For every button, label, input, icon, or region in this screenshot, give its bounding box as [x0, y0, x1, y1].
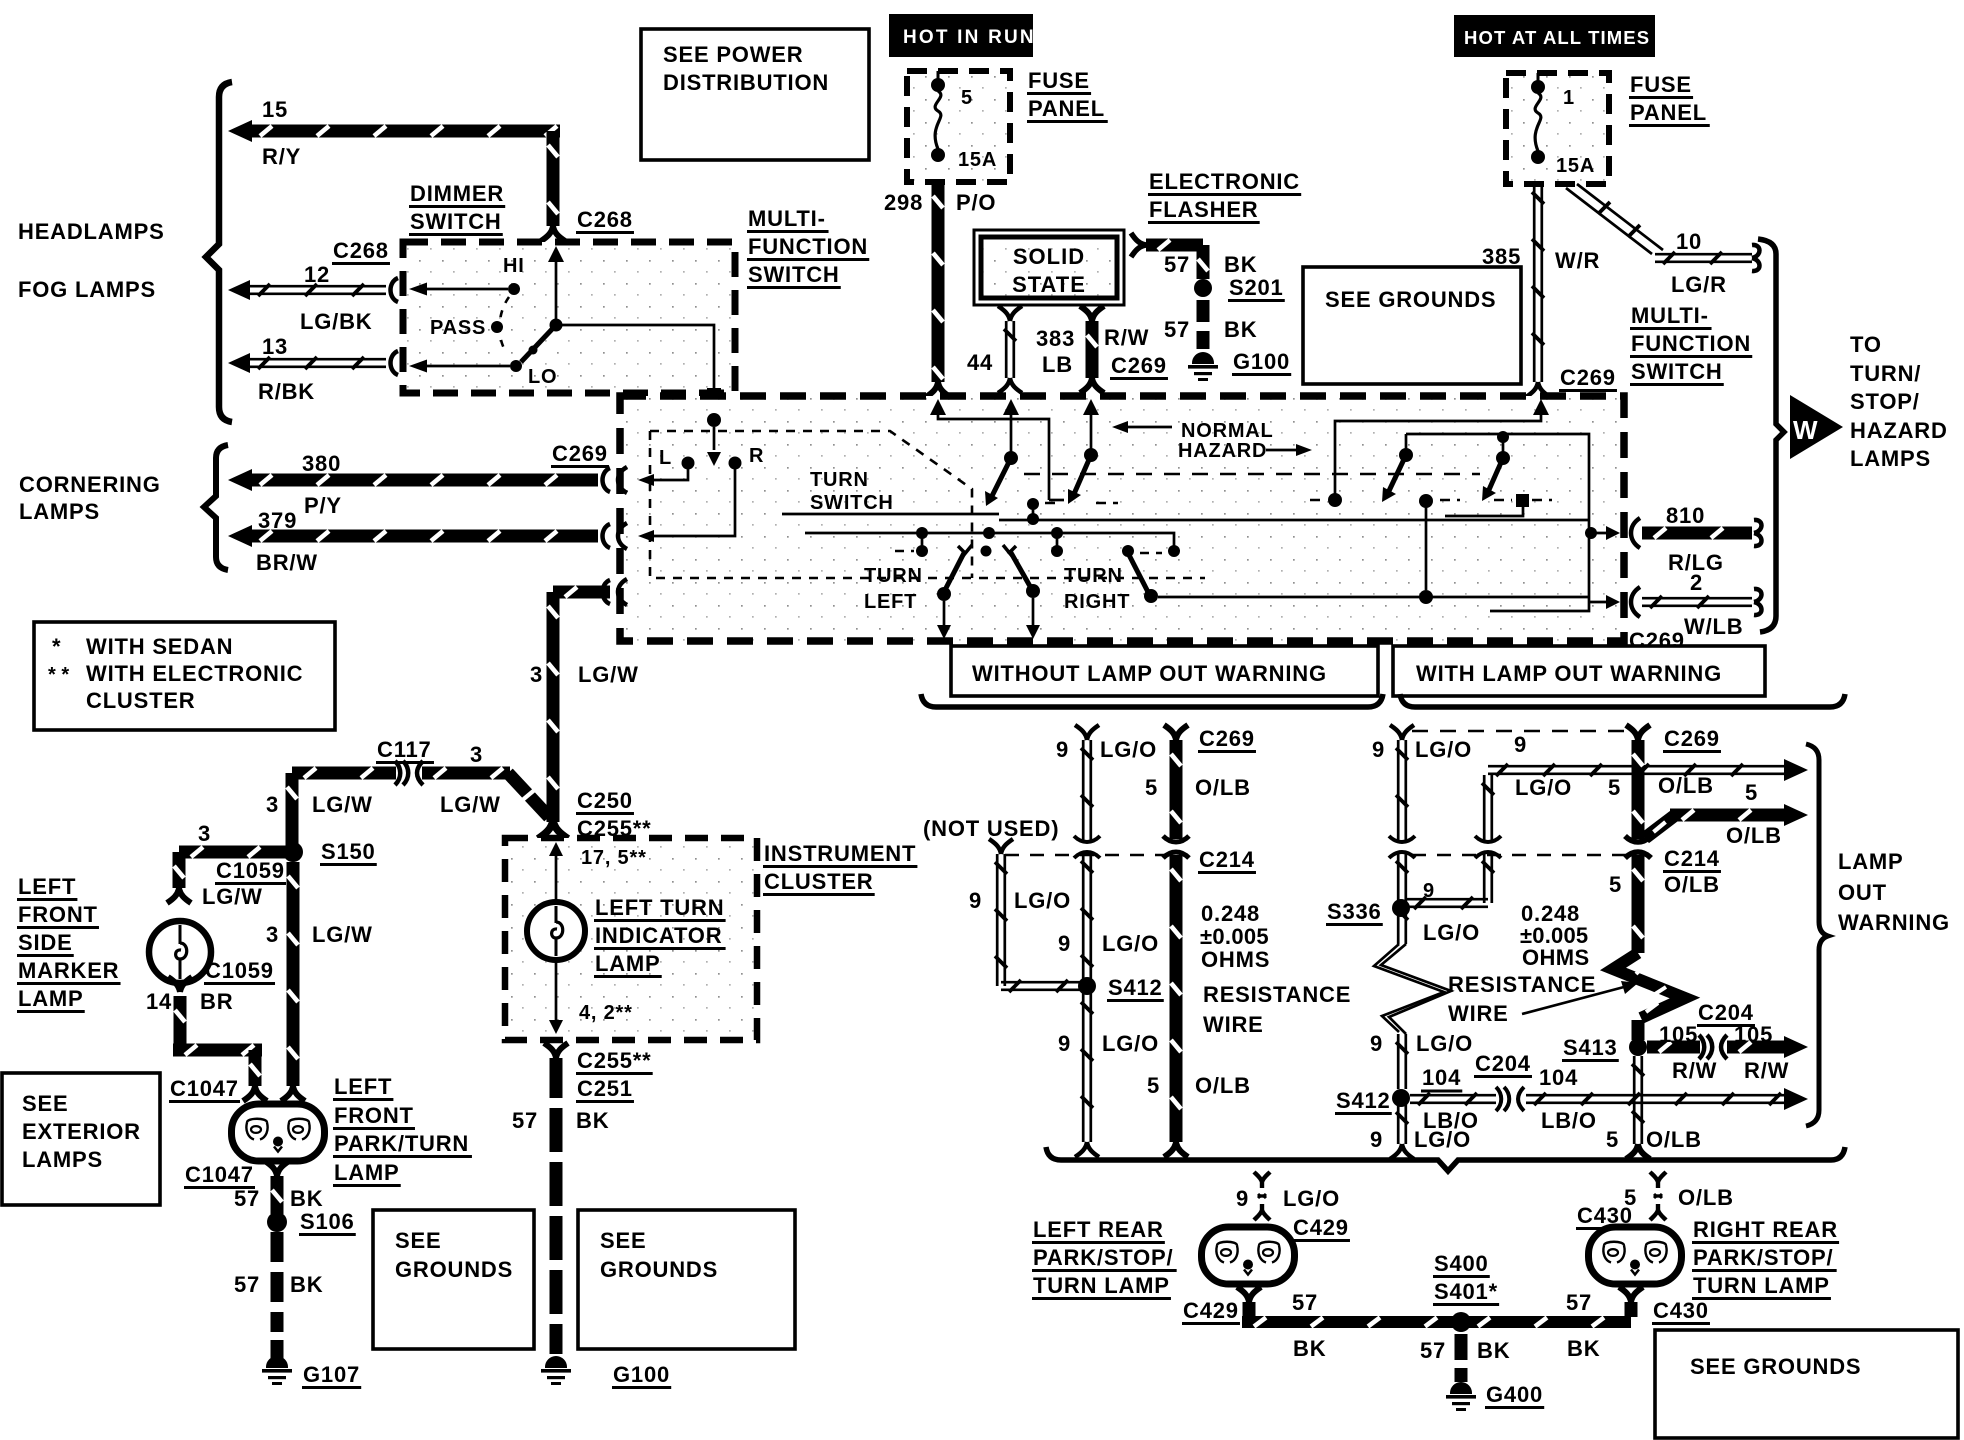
ground G400: [1446, 1382, 1476, 1411]
svg-text:S336: S336: [1327, 899, 1382, 924]
svg-text:9: 9: [1423, 880, 1435, 902]
svg-text:SEE GROUNDS: SEE GROUNDS: [1690, 1354, 1861, 1379]
wire 13 R/BK fog lamp: [228, 353, 250, 373]
svg-text:LG/W: LG/W: [440, 792, 501, 817]
svg-text:LAMP: LAMP: [18, 986, 84, 1011]
wire 5 O/LB (E) thick: [1626, 725, 1650, 740]
svg-text:RIGHT REAR: RIGHT REAR: [1693, 1217, 1838, 1242]
wire 383 R/W flasher output thick: [1080, 306, 1104, 321]
wire 57 BK to G400 dashed: [1455, 1334, 1468, 1360]
wire 385 entry arrow (hazard): [1533, 399, 1549, 415]
wire L contact to C269 (380): [646, 463, 688, 480]
svg-text:C255**: C255**: [577, 1048, 652, 1073]
svg-text:FOG LAMPS: FOG LAMPS: [18, 277, 156, 302]
wire 9 LG/O (C): [1390, 725, 1414, 740]
svg-text:C117: C117: [377, 737, 432, 762]
svg-text:C268: C268: [333, 238, 389, 263]
wire 12 LG/BK fog lamp: [228, 280, 250, 300]
svg-text:379: 379: [258, 508, 297, 533]
power tag HOT AT ALL TIMES: [1454, 15, 1655, 57]
svg-text:SEE GROUNDS: SEE GROUNDS: [1325, 287, 1496, 312]
wire 5 O/LB (B): [1164, 725, 1188, 740]
wire 5 O/LB (E bottom): [1634, 1056, 1642, 1144]
left front park/turn lamp: [232, 1104, 325, 1161]
svg-text:BK: BK: [1224, 252, 1257, 277]
fuse F5 15A: [937, 71, 940, 80]
wire hazard top line y434: [1406, 434, 1589, 611]
svg-text:9: 9: [1236, 1186, 1249, 1211]
svg-text:SOLID: SOLID: [1013, 244, 1085, 269]
wire 57 BK flasher ground leg: [1131, 233, 1146, 257]
left rear park/stop/turn lamp: [1202, 1227, 1295, 1284]
connector C269 pins on left edge: [618, 467, 627, 493]
svg-text:R/Y: R/Y: [262, 144, 301, 169]
svg-text:C269: C269: [552, 441, 608, 466]
svg-text:MULTI-: MULTI-: [748, 206, 826, 231]
svg-text:RIGHT: RIGHT: [1064, 591, 1130, 613]
svg-text:5: 5: [961, 87, 973, 109]
splice S413: [1629, 1038, 1647, 1056]
svg-text:FRONT: FRONT: [334, 1103, 414, 1128]
svg-text:R/W: R/W: [1744, 1058, 1789, 1083]
wire 380 P/Y cornering: [228, 469, 252, 491]
svg-text:±0.005: ±0.005: [1200, 924, 1269, 949]
svg-text:HI: HI: [503, 255, 525, 277]
wire LO to C268 pin 13: [415, 365, 510, 368]
svg-text:15A: 15A: [1556, 155, 1595, 177]
svg-text:S413: S413: [1563, 1035, 1618, 1060]
fuse panel housing (right): [1506, 73, 1609, 184]
svg-text:C269: C269: [1111, 353, 1167, 378]
multi-function switch housing: [620, 396, 1624, 641]
svg-text:9: 9: [1372, 737, 1385, 762]
splice S201: [1194, 279, 1212, 297]
svg-text:* *: * *: [48, 664, 69, 686]
svg-text:TURN: TURN: [864, 565, 923, 587]
wire dimmer output to turn switch: [562, 325, 714, 418]
connector C250/C255 fork: [538, 820, 568, 839]
svg-text:57: 57: [234, 1272, 260, 1297]
wire 15 R/Y headlamp feed: [228, 120, 252, 142]
wire 298 P/O: [932, 182, 945, 382]
svg-text:C430: C430: [1653, 1298, 1709, 1323]
wire R contact to C269 (379): [646, 463, 735, 536]
svg-text:PARK/TURN: PARK/TURN: [334, 1131, 469, 1156]
resistance wire zigzag (thick): [1613, 953, 1685, 1018]
wire 14 BR: [174, 996, 187, 1050]
svg-text:C1047: C1047: [185, 1162, 254, 1187]
hazard inner dashed line: [1024, 473, 1480, 476]
svg-text:CLUSTER: CLUSTER: [764, 869, 874, 894]
ground G100 (cluster): [541, 1356, 571, 1385]
wire 57 BK left rear: [1237, 1287, 1261, 1302]
svg-text:NORMAL: NORMAL: [1181, 420, 1274, 442]
svg-text:9: 9: [1370, 1127, 1383, 1152]
svg-text:105: 105: [1659, 1022, 1698, 1047]
node LO contact: [510, 360, 522, 372]
dimmer lever dashed travel arc: [500, 297, 509, 352]
svg-text:HEADLAMPS: HEADLAMPS: [18, 219, 165, 244]
svg-text:57: 57: [1566, 1290, 1592, 1315]
svg-text:LG/O: LG/O: [1283, 1186, 1340, 1211]
wire O/LB thick to lamp-out arrow: [1645, 816, 1674, 838]
svg-text:383: 383: [1036, 326, 1075, 351]
lever turn-left: [945, 551, 965, 590]
resistance wire zigzag (thin): [1374, 944, 1444, 1032]
dashes on contact row y503: [1045, 500, 1552, 503]
svg-text:9: 9: [969, 888, 982, 913]
svg-text:WITH ELECTRONIC: WITH ELECTRONIC: [86, 661, 303, 686]
splice S412 (right): [1392, 1089, 1410, 1107]
svg-text:SEE: SEE: [600, 1228, 646, 1253]
svg-text:PARK/STOP/: PARK/STOP/: [1033, 1245, 1173, 1270]
svg-text:LEFT REAR: LEFT REAR: [1033, 1217, 1164, 1242]
dashed link at C214 (with): [1412, 854, 1630, 857]
svg-text:MULTI-: MULTI-: [1631, 303, 1709, 328]
wire 9 LG/O (C bottom): [1398, 1104, 1406, 1144]
svg-text:BK: BK: [290, 1186, 323, 1211]
svg-text:L: L: [659, 447, 672, 469]
connector C1059 (bottom fork): [168, 977, 192, 992]
electronic flasher solid state module U1: [974, 230, 1124, 305]
svg-text:4, 2**: 4, 2**: [579, 1002, 633, 1024]
splice S400: [1451, 1312, 1471, 1332]
svg-text:G100: G100: [613, 1362, 670, 1387]
wire 385 W/R: [1534, 184, 1542, 382]
svg-text:O/LB: O/LB: [1726, 823, 1782, 848]
svg-text:R/BK: R/BK: [258, 379, 315, 404]
svg-text:PARK/STOP/: PARK/STOP/: [1693, 1245, 1833, 1270]
svg-text:SWITCH: SWITCH: [1631, 359, 1723, 384]
svg-text:S201: S201: [1229, 275, 1284, 300]
svg-text:C268: C268: [577, 207, 633, 232]
wire 3 LG/W to side marker: [179, 846, 288, 859]
left front side marker lamp bulb: [149, 921, 211, 983]
svg-text:DIMMER: DIMMER: [410, 181, 504, 206]
normal arrow: [1124, 426, 1172, 429]
svg-text:O/LB: O/LB: [1664, 872, 1720, 897]
svg-text:G107: G107: [303, 1362, 360, 1387]
svg-text:WITHOUT LAMP OUT WARNING: WITHOUT LAMP OUT WARNING: [972, 661, 1327, 686]
svg-text:LAMPS: LAMPS: [22, 1147, 103, 1172]
connector C268 arrow into dimmer: [548, 246, 564, 262]
svg-text:S150: S150: [321, 839, 376, 864]
svg-text:S412: S412: [1108, 975, 1163, 1000]
svg-text:MARKER: MARKER: [18, 958, 119, 983]
svg-text:WIRE: WIRE: [1448, 1001, 1509, 1026]
svg-text:57: 57: [1420, 1338, 1446, 1363]
svg-text:C269: C269: [1560, 365, 1616, 390]
note box WITH LAMP OUT WARNING: [1393, 646, 1765, 696]
svg-text:C204: C204: [1475, 1051, 1531, 1076]
svg-text:810: 810: [1666, 503, 1705, 528]
splice S106: [267, 1212, 287, 1232]
svg-text:PANEL: PANEL: [1028, 96, 1105, 121]
wire cluster feed arrow: [549, 842, 563, 856]
svg-text:57: 57: [1292, 1290, 1318, 1315]
svg-text:5: 5: [1606, 1127, 1619, 1152]
svg-text:O/LB: O/LB: [1195, 775, 1251, 800]
wire 810 R/LG: [1631, 518, 1640, 548]
svg-text:LG/BK: LG/BK: [300, 309, 372, 334]
svg-text:LB: LB: [1042, 352, 1073, 377]
wire 57 BK dashed to ground: [1197, 300, 1210, 322]
bracket under WITH box: [1400, 694, 1845, 707]
see grounds note box (top right): [1303, 267, 1521, 384]
left turn indicator lamp bulb: [527, 902, 585, 960]
dashes on contact row y551: [895, 551, 1162, 553]
svg-text:P/O: P/O: [956, 190, 996, 215]
svg-text:FUNCTION: FUNCTION: [748, 234, 868, 259]
svg-text:SWITCH: SWITCH: [748, 262, 840, 287]
svg-text:17, 5**: 17, 5**: [581, 847, 647, 869]
see power distribution note box: [641, 29, 869, 160]
svg-text:0.248: 0.248: [1201, 901, 1260, 926]
svg-text:PASS: PASS: [430, 317, 486, 339]
instrument cluster housing: [505, 838, 757, 1040]
svg-text:O/LB: O/LB: [1678, 1185, 1734, 1210]
svg-text:C429: C429: [1293, 1215, 1349, 1240]
svg-text:2: 2: [1690, 570, 1703, 595]
right rear park/stop/turn lamp: [1589, 1227, 1682, 1284]
svg-text:57: 57: [512, 1108, 538, 1133]
svg-text:LO: LO: [528, 366, 557, 388]
svg-text:LG/O: LG/O: [1014, 888, 1071, 913]
svg-text:C251: C251: [577, 1076, 633, 1101]
lever hazard-right: [1497, 431, 1509, 443]
turn switch inner dashed boundary: [650, 431, 1205, 578]
svg-text:10: 10: [1676, 229, 1702, 254]
dashed top link (with section): [1412, 730, 1625, 733]
svg-text:BR: BR: [200, 989, 233, 1014]
svg-text:9: 9: [1514, 732, 1527, 757]
wire 57 BK dashed to G107: [271, 1232, 284, 1262]
see grounds note box (bottom right): [1655, 1330, 1958, 1438]
svg-text:G100: G100: [1233, 349, 1290, 374]
svg-text:S400: S400: [1434, 1251, 1489, 1276]
svg-text:R/W: R/W: [1104, 325, 1149, 350]
wire HI to C268 pin 12: [415, 288, 508, 291]
svg-text:WIRE: WIRE: [1203, 1012, 1264, 1037]
node W hazard warning flag: [1790, 395, 1843, 459]
svg-text:HAZARD: HAZARD: [1850, 418, 1948, 443]
svg-text:LEFT: LEFT: [334, 1074, 392, 1099]
svg-text:380: 380: [302, 451, 341, 476]
svg-text:LG/O: LG/O: [1100, 737, 1157, 762]
wire 9 LG/O (A): [1075, 725, 1099, 740]
svg-text:S106: S106: [300, 1209, 355, 1234]
svg-text:5: 5: [1608, 775, 1621, 800]
svg-text:C250: C250: [577, 788, 633, 813]
svg-text:15A: 15A: [958, 149, 997, 171]
wire cluster return arrow: [555, 960, 558, 1020]
svg-text:O/LB: O/LB: [1646, 1127, 1702, 1152]
svg-text:P/Y: P/Y: [304, 493, 342, 518]
see grounds note box (center): [578, 1210, 795, 1349]
node junction on y597: [1419, 590, 1433, 604]
wire 379 BR/W cornering: [228, 525, 252, 547]
svg-text:SWITCH: SWITCH: [810, 492, 894, 514]
wire 3 LG/W down to park lamp: [287, 862, 300, 1086]
node hazard feed contact pair: [1027, 498, 1039, 510]
svg-text:LG/O: LG/O: [1414, 1127, 1471, 1152]
svg-text:3: 3: [530, 662, 543, 687]
svg-text:FUSE: FUSE: [1630, 72, 1692, 97]
svg-text:HOT IN RUN: HOT IN RUN: [903, 27, 1036, 48]
svg-text:LB/O: LB/O: [1541, 1108, 1597, 1133]
svg-text:W/LB: W/LB: [1684, 614, 1743, 639]
svg-text:*: *: [52, 634, 61, 659]
svg-text:C1059: C1059: [205, 958, 274, 983]
dashed link at C214: [1005, 854, 1170, 857]
fuse F1 15A: [1537, 73, 1540, 82]
svg-text:LG/O: LG/O: [1416, 1031, 1473, 1056]
wire 57 BK cluster to G100 dashed: [550, 1058, 563, 1098]
node turn-left contact row: [916, 545, 928, 557]
svg-text:TURN LAMP: TURN LAMP: [1033, 1273, 1170, 1298]
node bracket to turn/stop/hazard lamps: [1758, 239, 1784, 632]
svg-text:C429: C429: [1183, 1298, 1239, 1323]
svg-text:TURN: TURN: [810, 469, 869, 491]
svg-text:R: R: [749, 445, 764, 467]
svg-text:OHMS: OHMS: [1201, 947, 1270, 972]
svg-text:44: 44: [967, 350, 993, 375]
svg-text:FUNCTION: FUNCTION: [1631, 331, 1751, 356]
svg-text:TURN LAMP: TURN LAMP: [1693, 1273, 1830, 1298]
dimmer lever: [521, 325, 556, 362]
svg-text:LG/O: LG/O: [1102, 1031, 1159, 1056]
svg-text:57: 57: [234, 1186, 260, 1211]
svg-text:BK: BK: [1567, 1336, 1600, 1361]
svg-text:LG/W: LG/W: [202, 884, 263, 909]
svg-text:C1059: C1059: [216, 858, 285, 883]
wire 10 LG/R: [1566, 184, 1663, 254]
note box WITH SEDAN / ELECTRONIC CLUSTER: [34, 622, 335, 730]
node HEADLAMPS/FOG LAMPS group bracket: [206, 82, 232, 422]
svg-text:3: 3: [470, 742, 483, 767]
svg-text:LG/O: LG/O: [1415, 737, 1472, 762]
wire turn feed line y513: [782, 513, 999, 516]
svg-text:FLASHER: FLASHER: [1149, 197, 1259, 222]
svg-text:SIDE: SIDE: [18, 930, 73, 955]
svg-text:SEE POWER: SEE POWER: [663, 42, 803, 67]
svg-text:STATE: STATE: [1012, 272, 1086, 297]
svg-text:12: 12: [304, 262, 330, 287]
grouping bracket (bottom): [1046, 1147, 1845, 1171]
svg-text:TURN/: TURN/: [1850, 361, 1921, 386]
power tag HOT IN RUN: [889, 14, 1033, 57]
svg-text:LEFT TURN: LEFT TURN: [595, 895, 724, 920]
svg-text:GROUNDS: GROUNDS: [395, 1257, 513, 1282]
svg-text:1: 1: [1563, 87, 1575, 109]
svg-text:LEFT: LEFT: [864, 591, 917, 613]
svg-text:LG/W: LG/W: [578, 662, 639, 687]
splice S412 (left): [1078, 977, 1096, 995]
svg-text:15: 15: [262, 97, 288, 122]
svg-text:C269: C269: [1199, 726, 1255, 751]
svg-text:INSTRUMENT: INSTRUMENT: [764, 841, 916, 866]
svg-text:9: 9: [1058, 1031, 1071, 1056]
svg-text:5: 5: [1147, 1073, 1160, 1098]
svg-text:BR/W: BR/W: [256, 550, 318, 575]
svg-text:GROUNDS: GROUNDS: [600, 1257, 718, 1282]
svg-text:RESISTANCE: RESISTANCE: [1448, 972, 1596, 997]
svg-text:3: 3: [266, 792, 279, 817]
wire 44 LB flasher output thin: [998, 306, 1022, 321]
svg-text:LAMPS: LAMPS: [1850, 446, 1931, 471]
svg-text:W: W: [1793, 415, 1818, 445]
svg-text:LAMP: LAMP: [1838, 849, 1904, 874]
connector C429 inline: [1254, 1172, 1270, 1220]
svg-text:WARNING: WARNING: [1838, 910, 1950, 935]
wire 383 entry arrow + lever B: [1083, 399, 1099, 415]
svg-text:9: 9: [1370, 1031, 1383, 1056]
svg-text:LG/W: LG/W: [312, 922, 373, 947]
svg-text:LAMP: LAMP: [595, 951, 661, 976]
ground G107: [262, 1356, 292, 1385]
svg-text:LG/W: LG/W: [312, 792, 373, 817]
wire 3 LG/W branch through C117: [292, 767, 396, 780]
svg-text:105: 105: [1734, 1022, 1773, 1047]
svg-text:SEE: SEE: [395, 1228, 441, 1253]
svg-text:EXTERIOR: EXTERIOR: [22, 1119, 141, 1144]
svg-text:S412: S412: [1336, 1088, 1391, 1113]
dimmer switch dashed housing: [403, 242, 735, 393]
svg-text:LG/O: LG/O: [1102, 931, 1159, 956]
svg-text:104: 104: [1539, 1065, 1578, 1090]
svg-text:O/LB: O/LB: [1658, 773, 1714, 798]
wire 2 W/LB: [1631, 587, 1640, 617]
see grounds note box (left): [373, 1210, 534, 1349]
svg-text:TO: TO: [1850, 332, 1882, 357]
svg-text:SWITCH: SWITCH: [410, 209, 502, 234]
svg-text:O/LB: O/LB: [1195, 1073, 1251, 1098]
svg-text:9: 9: [1058, 931, 1071, 956]
svg-text:BK: BK: [576, 1108, 609, 1133]
svg-text:LAMPS: LAMPS: [19, 499, 100, 524]
svg-text:13: 13: [262, 334, 288, 359]
svg-text:R/W: R/W: [1672, 1058, 1717, 1083]
wire turn common line y533: [805, 533, 1174, 549]
svg-text:298: 298: [884, 190, 923, 215]
note box WITHOUT LAMP OUT WARNING: [951, 646, 1378, 696]
wire E to S413: [1632, 1020, 1645, 1040]
svg-text:OUT: OUT: [1838, 880, 1887, 905]
svg-text:C1047: C1047: [170, 1076, 239, 1101]
svg-text:C214: C214: [1664, 846, 1720, 871]
svg-text:LAMP: LAMP: [334, 1160, 400, 1185]
bracket under WITHOUT box: [921, 694, 1383, 707]
wire 44 entry arrow + lever A: [1003, 399, 1019, 415]
svg-text:104: 104: [1422, 1065, 1461, 1090]
svg-text:WITH SEDAN: WITH SEDAN: [86, 634, 233, 659]
wire 57 BK from park lamp: [265, 1161, 289, 1176]
wire 3 LG/W trunk from C269: [603, 580, 611, 604]
svg-text:RESISTANCE: RESISTANCE: [1203, 982, 1351, 1007]
svg-text:DISTRIBUTION: DISTRIBUTION: [663, 70, 829, 95]
wire 9 LG/O (D) to lamp-out arrow: [1488, 766, 1784, 774]
svg-text:5: 5: [1745, 780, 1758, 805]
wire 105 R/W: [1647, 1041, 1700, 1054]
svg-text:BK: BK: [1293, 1336, 1326, 1361]
fuse panel housing (left): [907, 71, 1010, 182]
connector C430 inline: [1650, 1172, 1666, 1220]
svg-text:C269: C269: [1664, 726, 1720, 751]
svg-text:9: 9: [1056, 737, 1069, 762]
splice S150: [283, 842, 303, 862]
svg-text:CLUSTER: CLUSTER: [86, 688, 196, 713]
svg-text:14: 14: [146, 989, 172, 1014]
